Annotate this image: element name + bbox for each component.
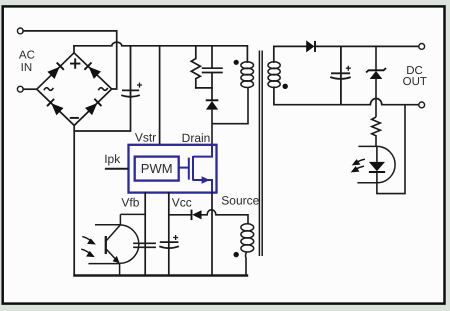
MOSFET source arrow [202, 176, 210, 183]
bridge tilde right [98, 88, 107, 91]
Vcc capacitor plus mark [173, 235, 178, 240]
LED emission arrows [352, 159, 365, 171]
wire Vfb pin [144, 193, 146, 276]
optocoupler phototransistor envelope arc [120, 225, 139, 263]
bridge plus mark [70, 58, 80, 68]
svg-text:Vfb: Vfb [121, 196, 139, 210]
AC input terminal bottom [17, 86, 23, 92]
phototransistor collector lead [95, 214, 145, 224]
secondary polarity dot [283, 84, 288, 89]
wire HV bus (hops over AC wire) to primary winding top [74, 42, 247, 62]
bridge tilde left [44, 88, 53, 91]
AC input terminal top [17, 28, 23, 34]
svg-text:Vcc: Vcc [172, 196, 192, 210]
wire clamp diode to drain node [211, 110, 213, 145]
transformer core [259, 51, 262, 257]
wire output diode to DC OUT plus [315, 45, 419, 47]
phototransistor body [106, 225, 120, 263]
bridge diode D4 (lower-right edge) [85, 98, 102, 115]
wire Vcc diode to aux winding (hops over Source line) [202, 210, 249, 224]
output capacitor [330, 46, 351, 104]
zener diode [366, 46, 386, 117]
Vcc capacitor [159, 242, 179, 248]
wire Source pin [211, 193, 213, 276]
primary polarity dot [234, 60, 239, 65]
bridge diode D2 (upper-left edge) [47, 62, 64, 79]
PWM inner block [135, 157, 179, 181]
bridge minus mark [70, 117, 79, 119]
wire secondary top to output diode [274, 46, 306, 62]
svg-text:DC: DC [406, 65, 423, 77]
wire AC bottom terminal to bridge left vertex [23, 88, 37, 90]
DC OUT terminal top [419, 44, 425, 50]
phototransistor emitter lead [88, 264, 119, 276]
wire Vcc pin [168, 193, 170, 276]
Vfb capacitor [134, 243, 155, 247]
optocoupler LED [369, 105, 405, 194]
snubber capacitor [203, 46, 222, 100]
Vcc rectifier diode [169, 210, 202, 221]
svg-text:Ipk: Ipk [104, 152, 121, 166]
phototransistor emitter arrow [113, 256, 120, 263]
wire secondary bottom output return rail (hops over zener leg) [274, 87, 419, 105]
wire bridge bottom vertex to ground rail [73, 125, 75, 275]
DC OUT terminal bottom [419, 102, 425, 108]
light arrows into phototransistor [81, 237, 94, 257]
wire primary winding bottom to drain node [212, 87, 248, 123]
wire Vstr pin to HV bus [159, 46, 161, 145]
transformer secondary winding [268, 62, 280, 88]
wire AC top terminal to bridge right vertex [23, 31, 117, 89]
svg-text:Vstr: Vstr [135, 131, 156, 145]
bridge rectifier diamond [37, 53, 112, 126]
feedback resistor [372, 117, 381, 146]
svg-text:IN: IN [21, 62, 33, 74]
internal MOSFET [179, 145, 212, 193]
wire aux winding bottom to ground rail [246, 252, 247, 276]
primary ground bottom rail [75, 274, 248, 276]
optocoupler LED envelope arc [377, 146, 395, 182]
snubber bottom bar [196, 87, 212, 89]
PWM controller IC box [129, 145, 217, 193]
optocoupler LED leads [357, 146, 377, 182]
wire bridge top vertex to HV bus [73, 46, 75, 53]
transformer auxiliary winding [241, 224, 254, 252]
bulk capacitor C1 [74, 46, 140, 131]
Ipk stub wire [105, 168, 129, 170]
svg-text:Drain: Drain [182, 131, 211, 145]
svg-text:Source: Source [221, 194, 259, 208]
snubber clamp diode [206, 100, 219, 109]
snubber resistor [191, 46, 200, 88]
bridge diode D1 (lower-left edge) [46, 98, 63, 115]
bridge diode D3 (upper-right edge) [84, 62, 101, 79]
svg-text:PWM: PWM [141, 161, 173, 176]
aux polarity dot [234, 252, 239, 257]
transformer primary winding [241, 62, 254, 88]
svg-text:AC: AC [19, 50, 35, 62]
bulk capacitor plus mark [137, 83, 142, 88]
output capacitor plus mark [346, 66, 351, 71]
svg-text:OUT: OUT [403, 76, 427, 88]
output rectifier diode [306, 40, 315, 52]
